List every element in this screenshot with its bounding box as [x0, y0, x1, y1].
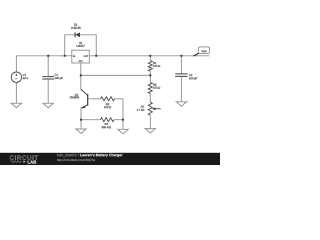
node junction R1 top [149, 55, 151, 57]
value label C1 [55, 74, 63, 80]
credit user [57, 154, 79, 157]
ground C2 [176, 102, 186, 106]
value label D1 [71, 24, 80, 29]
logo arrow [23, 160, 25, 163]
value label U1 [77, 42, 85, 47]
node label Vout [201, 50, 206, 52]
resistor R1 [148, 61, 152, 72]
value label C2 [189, 74, 197, 80]
logo zigzag [11, 161, 23, 163]
value label R7 [137, 106, 145, 111]
node junction C1 [47, 55, 49, 57]
wire C2 bottom [180, 76, 182, 101]
node junction C2 [180, 55, 182, 57]
wire ADJ to resistor chain [81, 74, 151, 76]
node junction R1-R5 [149, 74, 151, 76]
wire R1-R5 [149, 71, 151, 82]
capacitor C2 [175, 73, 187, 75]
wire ADJ column [80, 63, 82, 89]
logo CIRCUIT [10, 155, 38, 159]
wire top rail [16, 56, 209, 72]
node Vout flag tail [194, 53, 199, 56]
wire R3 corner down [122, 99, 124, 130]
value label R5 [153, 84, 160, 89]
value label Q1 [70, 94, 79, 99]
wire C2 top [180, 56, 182, 74]
node Vout flag [199, 47, 210, 54]
wire diode branch left [65, 35, 75, 56]
node junction emitter [80, 119, 82, 121]
diode D1 [74, 32, 76, 37]
ground Q1 emitter [76, 129, 86, 133]
wire emitter down [80, 108, 82, 120]
node junction D1 right [95, 55, 97, 57]
credit url [57, 159, 95, 162]
node junction ADJ [80, 74, 82, 76]
resistor R4 [101, 118, 115, 122]
potentiometer R7 [148, 102, 152, 115]
value label R4 [102, 123, 111, 128]
wire R7 bottom [149, 115, 151, 128]
wire R5-R7 [149, 94, 151, 103]
resistor R3 [101, 97, 115, 101]
wire V1 bottom [15, 82, 17, 103]
wire emitter ground stub [80, 120, 82, 129]
transistor Q1 [87, 94, 89, 105]
regulator U1 LM317 box [72, 50, 90, 63]
source V1 [11, 72, 21, 82]
node junction R4-gnd [122, 119, 124, 121]
credit title [80, 154, 122, 157]
logo LAB [28, 161, 37, 164]
ground C1 [43, 103, 53, 107]
ground V1 [11, 103, 21, 107]
wire diode branch right [80, 35, 96, 56]
value label R1 [153, 62, 160, 67]
ground R4 [118, 129, 128, 133]
resistor R5 [148, 82, 152, 93]
pin labels U1 [73, 55, 88, 61]
value label R3 [104, 103, 111, 108]
wire C1 bottom [47, 79, 49, 103]
ground R7 [145, 129, 155, 133]
wire R1 top stub [149, 56, 151, 61]
wire emitter junction to R4 [81, 119, 101, 121]
bottom bar [0, 153, 220, 165]
capacitor C1 [42, 76, 54, 78]
value label V1 [23, 74, 29, 79]
node junction D1 left [64, 55, 66, 57]
wire C1 top [47, 56, 49, 77]
